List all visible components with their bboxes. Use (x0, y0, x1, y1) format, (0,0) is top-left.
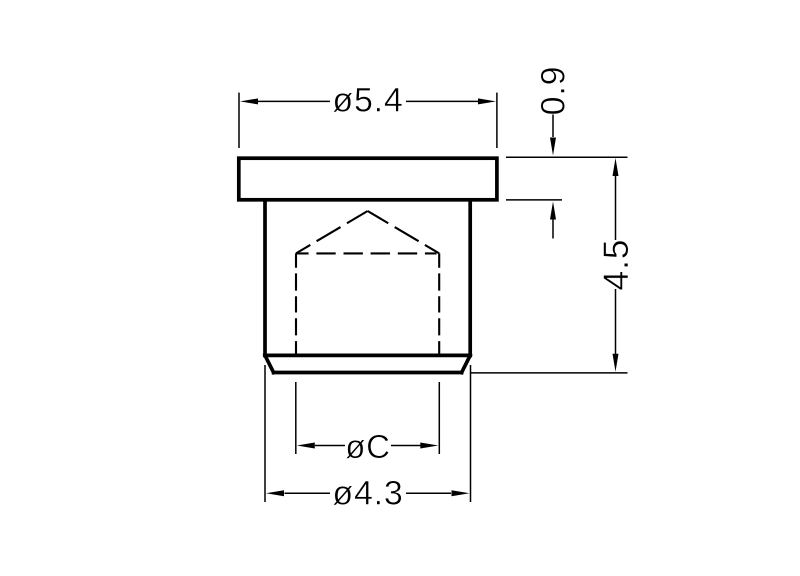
svg-text:ø5.4: ø5.4 (332, 82, 403, 120)
svg-text:0.9: 0.9 (535, 66, 573, 116)
svg-text:øC: øC (345, 428, 391, 465)
svg-text:ø4.3: ø4.3 (332, 475, 403, 513)
svg-text:4.5: 4.5 (596, 239, 636, 291)
